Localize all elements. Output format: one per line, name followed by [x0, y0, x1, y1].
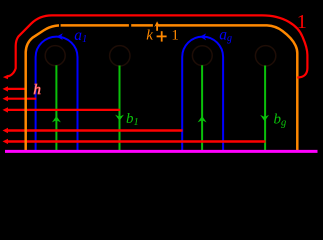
svg-text:1: 1	[297, 11, 307, 33]
red line A	[7, 88, 27, 90]
curve ag (blue arch over hole 3)	[182, 37, 223, 152]
hole circle 2	[110, 46, 130, 66]
arrow on ag	[200, 33, 206, 40]
hole circle 1	[45, 46, 65, 66]
green line 3 (through handle g)	[201, 65, 203, 151]
red line D	[7, 129, 183, 132]
hole circle 4	[255, 46, 275, 66]
orange arrow at k+1	[156, 24, 158, 31]
green line 1 (through handle 1)	[55, 65, 57, 151]
red curve 1 (outer boundary)	[6, 15, 307, 77]
red line B	[7, 98, 37, 100]
svg-text:h: h	[33, 82, 41, 98]
up arrow on green 1	[52, 116, 61, 122]
orange curve k+1	[26, 25, 298, 151]
curve bg (green line 4)	[264, 66, 266, 152]
down arrow on bg	[260, 115, 269, 121]
gap ticks on orange line	[59, 24, 61, 28]
red line E	[7, 140, 266, 143]
down arrow on b1	[115, 115, 124, 121]
red line C	[7, 109, 121, 111]
curve a1 (blue arch over hole 1)	[36, 37, 78, 152]
curve b1 (green line 2)	[119, 66, 121, 152]
up arrow on green 3	[198, 116, 207, 122]
arrow on red curve 1	[3, 75, 8, 80]
hole circle 3	[192, 46, 212, 66]
arrow on a1	[57, 33, 63, 40]
magenta line h'	[5, 150, 318, 153]
